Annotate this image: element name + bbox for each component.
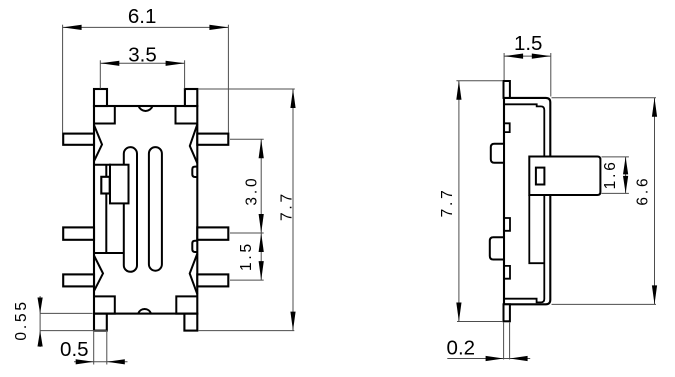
ext line pin2 center bbox=[230, 232, 264, 234]
corner tab bottom-left bbox=[94, 314, 107, 331]
side corner tab bottom bbox=[504, 304, 510, 321]
corner tab top-right bbox=[185, 89, 197, 106]
dim line 1.5R bbox=[504, 55, 551, 57]
arrow 1.6 down bbox=[623, 176, 628, 194]
ext line 7.7R top bbox=[456, 80, 503, 82]
inner corner block bottom-left bbox=[94, 296, 115, 313]
arrow 0.2 right outside bbox=[510, 356, 528, 361]
arrow 0.55 top outside bbox=[38, 298, 43, 314]
side pin 1 (gull-wing seen from side) bbox=[491, 144, 504, 163]
internal slider line (L shape) bbox=[529, 195, 544, 263]
ext line 3.5 right bbox=[184, 60, 186, 88]
arrow 7.7R up bbox=[456, 81, 461, 100]
chevron notch right-top bbox=[190, 124, 198, 163]
ext line 1.5R left bbox=[503, 53, 505, 80]
arrows left view bbox=[38, 25, 296, 365]
pin 3 right bbox=[197, 274, 228, 286]
ext line 0.55 bottom (tab bottom) bbox=[40, 330, 107, 332]
ext line 6.6 bottom bbox=[552, 303, 657, 305]
arrow 6.6 down bbox=[652, 285, 657, 304]
slider housing top line bbox=[94, 164, 111, 166]
svg-text:3.5: 3.5 bbox=[128, 43, 157, 66]
arrow 0.5 left outside bbox=[76, 359, 94, 364]
arrow 0.5 right outside bbox=[107, 359, 125, 364]
svg-text:0.55: 0.55 bbox=[13, 299, 30, 340]
dim line 1.6 bbox=[625, 157, 627, 194]
arrow 3.0 up bbox=[259, 139, 264, 158]
svg-text:0.2: 0.2 bbox=[447, 336, 476, 359]
svg-text:6.1: 6.1 bbox=[128, 5, 157, 28]
arrow 1.5 down bbox=[259, 261, 264, 280]
ext line 1.5R right bbox=[550, 53, 552, 97]
ext line 3.5 left bbox=[99, 60, 101, 88]
dim line 7.7R bbox=[458, 81, 460, 322]
ext line 1.6 bottom bbox=[602, 192, 629, 194]
arrow 7.7R down bbox=[456, 303, 461, 322]
knob stem rect bbox=[536, 168, 545, 185]
dim line 0.5 bbox=[74, 361, 128, 363]
ext line 7.7 top bbox=[199, 88, 295, 90]
inner cover wall line bbox=[504, 104, 544, 302]
ext line 7.7 bottom bbox=[199, 330, 295, 332]
dim line 0.55 bbox=[39, 296, 41, 347]
contact slot left (stadium) bbox=[124, 147, 137, 272]
arrow 6.6 up bbox=[652, 98, 657, 117]
inner corner block top-left bbox=[94, 106, 115, 124]
switch body outline bbox=[94, 106, 197, 314]
ext line 6.1 left bbox=[62, 25, 64, 133]
inner corner block bottom-right bbox=[176, 296, 197, 313]
svg-text:7.7: 7.7 bbox=[279, 191, 296, 221]
ext line 6.1 right bbox=[227, 25, 229, 133]
corner tab top-left bbox=[94, 89, 107, 106]
arrow 1.5R right bbox=[532, 54, 551, 59]
slider housing left edge bbox=[105, 165, 107, 253]
arrow 3.5 left bbox=[100, 61, 119, 66]
top edge notch (semicircle) bbox=[139, 106, 153, 111]
ext line 0.5 left bbox=[93, 332, 95, 365]
svg-text:6.6: 6.6 bbox=[634, 176, 651, 206]
pin 2 left bbox=[63, 227, 94, 239]
slider housing bottom line bbox=[94, 252, 125, 254]
dim line 7.7 left view bbox=[292, 89, 294, 331]
arrow 7.7L down bbox=[290, 312, 295, 331]
svg-text:3.0: 3.0 bbox=[244, 176, 261, 206]
arrow 1.5 up bbox=[259, 233, 264, 252]
ext line pin1 center bbox=[230, 138, 264, 140]
ext line 0.5 right bbox=[106, 332, 108, 365]
side corner tab top bbox=[504, 81, 510, 98]
arrow 0.55 bottom outside bbox=[38, 331, 43, 347]
pin 2 right bbox=[197, 227, 228, 239]
ext line 6.6 top bbox=[552, 97, 657, 99]
ext line 7.7R bottom bbox=[457, 321, 503, 323]
svg-text:1.6: 1.6 bbox=[602, 159, 619, 189]
side pin 2 bbox=[490, 237, 504, 259]
ext line pin3 center bbox=[230, 279, 264, 281]
ext line 0.55 top (body bottom) bbox=[40, 312, 92, 314]
corner tab bottom-right bbox=[184, 314, 197, 331]
dim line 3.0 and 1.5 bbox=[260, 139, 262, 280]
arrows right view bbox=[456, 54, 657, 362]
chevron notch left-bottom bbox=[94, 256, 103, 292]
ext line 0.2 left bbox=[503, 323, 505, 360]
arrow 3.0 down bbox=[259, 214, 264, 233]
inner tab 2 side bbox=[504, 218, 510, 231]
arrow 0.2 left outside bbox=[486, 356, 504, 361]
svg-text:1.5: 1.5 bbox=[514, 32, 543, 55]
slider small tab bbox=[101, 177, 109, 194]
pin 1 right bbox=[197, 134, 228, 145]
actuator knob side bbox=[529, 157, 600, 196]
arrow 3.5 right bbox=[166, 61, 185, 66]
arrow 6.1 right bbox=[209, 25, 228, 30]
svg-text:1.5: 1.5 bbox=[238, 241, 255, 271]
arrow 1.5R left bbox=[504, 54, 523, 59]
arrow 6.1 left bbox=[63, 25, 82, 30]
ext line 0.2 right bbox=[509, 323, 511, 360]
dim line 6.1 bbox=[63, 26, 229, 28]
pin 1 left bbox=[63, 134, 94, 145]
chevron notch left-top bbox=[94, 125, 102, 161]
arrow 1.6 up bbox=[623, 157, 628, 175]
dim line 6.6 bbox=[654, 98, 656, 305]
inner tab 3 side bbox=[504, 266, 510, 279]
contact slot right (stadium) bbox=[149, 147, 162, 271]
chevron notch right-bottom bbox=[190, 254, 198, 295]
slider knob bbox=[110, 165, 129, 204]
dim line 0.2 bbox=[447, 358, 530, 360]
bump notch right edge lower bbox=[192, 241, 197, 252]
side body outline bbox=[504, 98, 550, 304]
svg-text:0.5: 0.5 bbox=[60, 338, 89, 361]
bump notch right edge upper bbox=[192, 167, 197, 177]
arrow 7.7L up bbox=[290, 89, 295, 108]
svg-text:7.7: 7.7 bbox=[439, 187, 456, 217]
inner tab 1 side bbox=[504, 123, 510, 132]
ext line 1.6 top bbox=[602, 156, 629, 158]
bottom edge notch (semicircle) bbox=[138, 309, 151, 314]
inner corner block top-right bbox=[176, 106, 198, 124]
dim line 3.5 bbox=[100, 62, 184, 64]
pin 3 left bbox=[63, 274, 94, 286]
